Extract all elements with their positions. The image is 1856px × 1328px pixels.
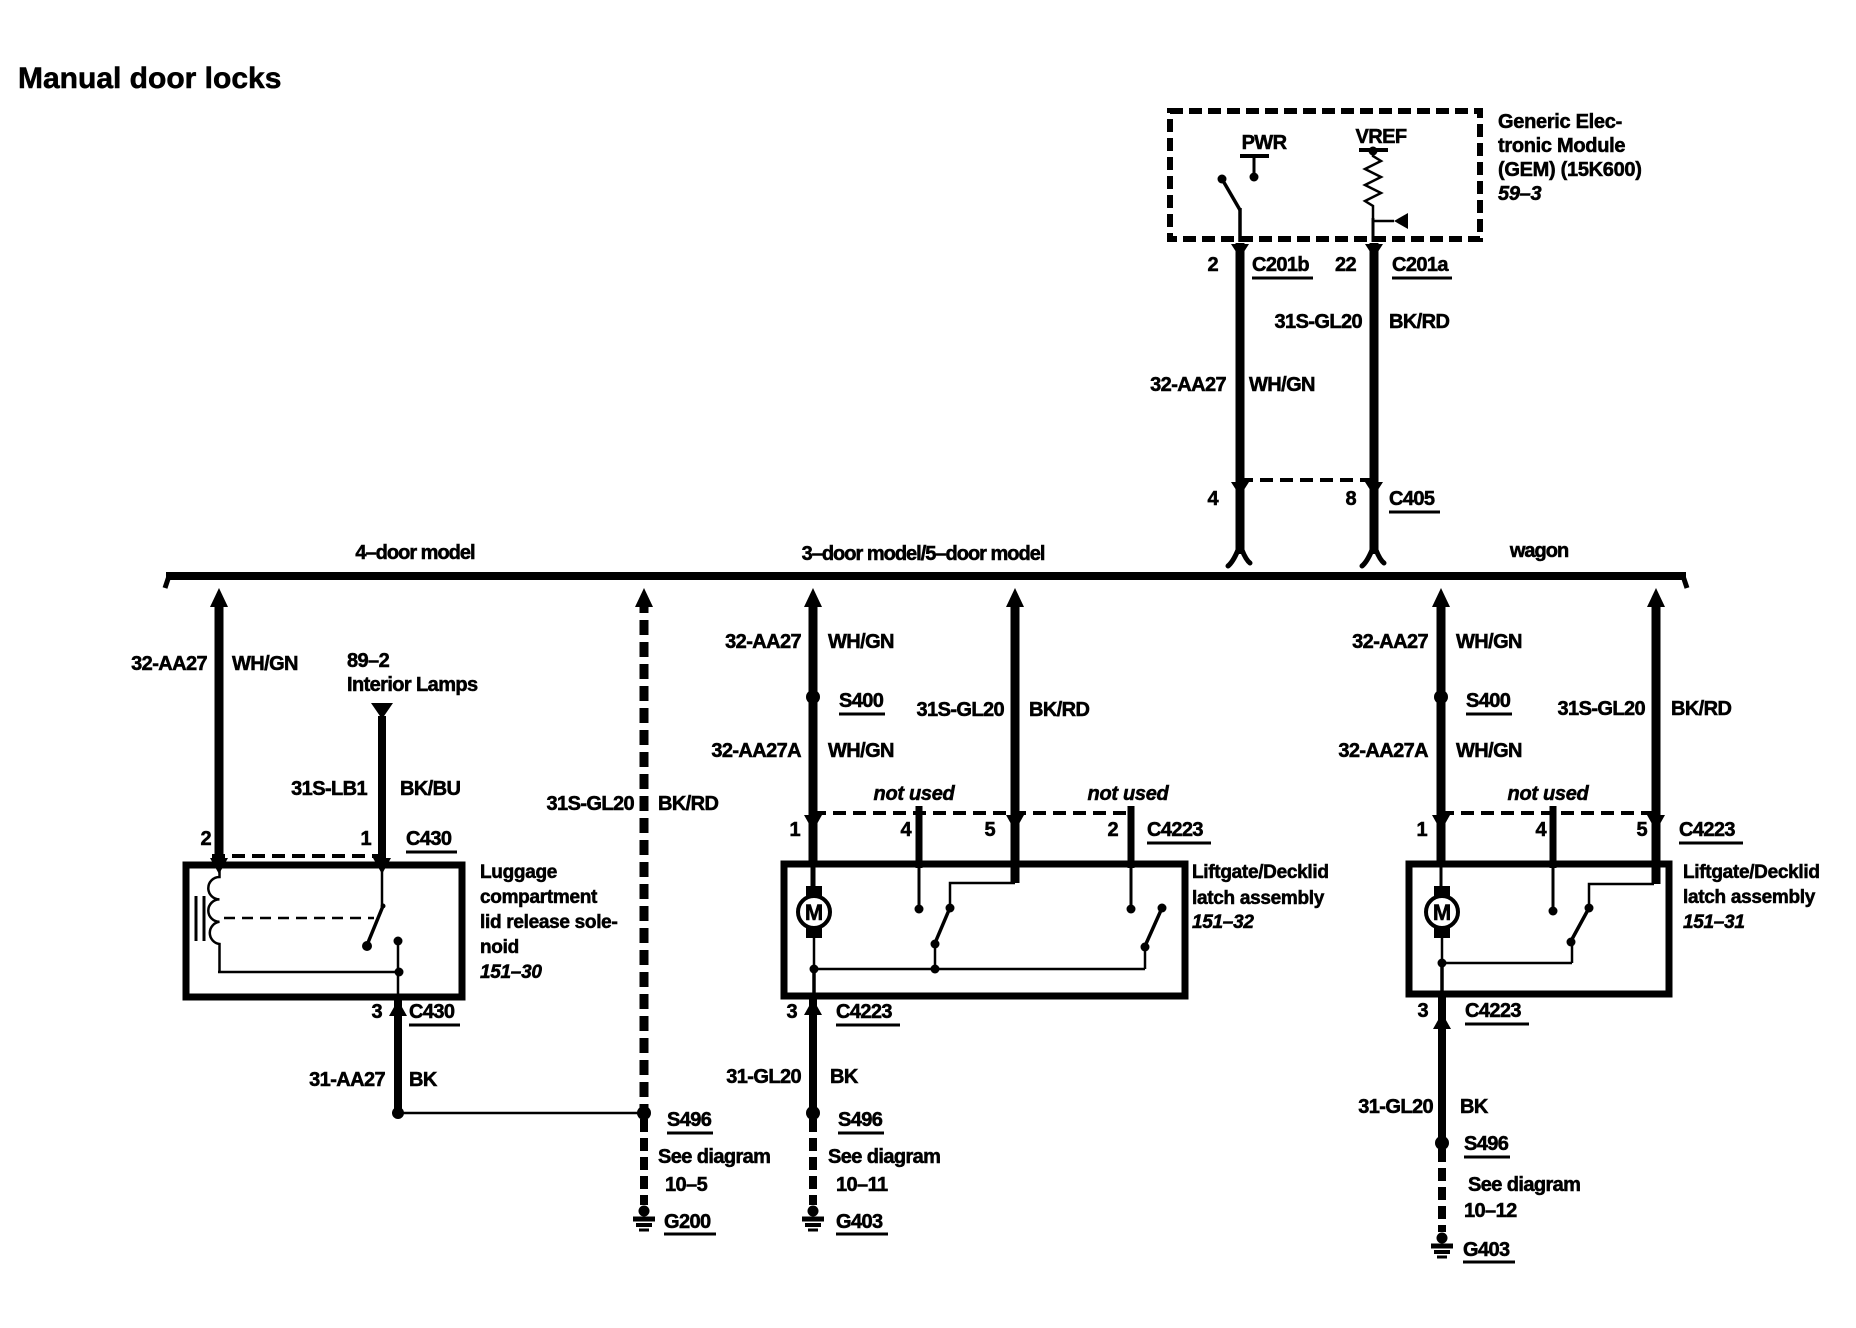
source arrow from interior lamps — [371, 703, 393, 719]
connector C4223 dashed line mid — [813, 811, 1131, 815]
connector arrow pin5 mid — [1006, 815, 1024, 831]
connector arrow pin5 right — [1647, 815, 1665, 831]
stub pin 2 mid — [1127, 806, 1136, 914]
svg-text:C201b: C201b — [1252, 254, 1309, 276]
svg-text:lid release sole-: lid release sole- — [480, 912, 617, 933]
wire C405 pin4 to bus — [1236, 480, 1245, 554]
connector C4223 dashed line right — [1441, 811, 1656, 815]
net 31S-GL20 BK/RD label — [1275, 311, 1450, 333]
wire junction to pin 3 — [397, 972, 400, 997]
svg-text:4: 4 — [1207, 488, 1219, 510]
svg-text:31-GL20: 31-GL20 — [726, 1066, 801, 1088]
svg-text:31S-GL20: 31S-GL20 — [547, 793, 635, 815]
svg-text:WH/GN: WH/GN — [828, 740, 894, 762]
splice S400 label mid — [839, 690, 885, 714]
jog wire pin5 to switch1 mid — [950, 883, 1015, 905]
arrow up at bus middle2 — [1006, 588, 1024, 607]
connector arrow C201b — [1231, 244, 1249, 258]
wire bottom horizontal mid — [814, 968, 1145, 971]
bus wire horizontal — [166, 572, 1686, 580]
svg-text:C4223: C4223 — [836, 1001, 892, 1023]
net 32-AA27 WH/GN label right — [1352, 631, 1522, 653]
net 32-AA27A WH/GN label right — [1338, 740, 1522, 762]
svg-text:8: 8 — [1345, 488, 1356, 510]
wire motor to junction mid — [813, 938, 816, 969]
wire splice horizontal to S496 — [398, 1112, 644, 1115]
svg-text:S496: S496 — [1464, 1133, 1509, 1155]
svg-text:31S-GL20: 31S-GL20 — [1275, 311, 1363, 333]
svg-text:Interior Lamps: Interior Lamps — [347, 674, 478, 696]
switch 1 mid — [931, 904, 955, 970]
wire pin2 GEM to C405 — [1236, 243, 1245, 480]
svg-text:noid: noid — [480, 937, 519, 958]
svg-text:WH/GN: WH/GN — [1249, 374, 1315, 396]
connector C4223 label right — [1679, 819, 1743, 843]
GEM module label — [1498, 111, 1642, 205]
net 31-GL20 BK label mid — [726, 1066, 859, 1088]
junction dot left bottom — [392, 1107, 404, 1119]
wire coil bottom to junction — [218, 971, 399, 974]
ground G403 symbol mid — [802, 1206, 824, 1231]
svg-text:Liftgate/Decklid: Liftgate/Decklid — [1683, 862, 1820, 883]
connector C405 dashed line — [1240, 478, 1374, 482]
splice S496 right — [1435, 1136, 1449, 1150]
svg-text:S496: S496 — [838, 1109, 883, 1131]
resistor (VREF pull-up) — [1365, 152, 1381, 221]
svg-text:not used: not used — [1508, 783, 1590, 805]
svg-text:10–12: 10–12 — [1464, 1200, 1517, 1222]
latch assembly label mid — [1192, 862, 1329, 933]
net 31S-GL20 BK/RD label left — [547, 793, 719, 815]
net 31-AA27 BK label — [309, 1069, 438, 1091]
svg-text:wagon: wagon — [1509, 540, 1568, 562]
svg-text:59–3: 59–3 — [1498, 183, 1541, 205]
solenoid coil L1 — [208, 868, 219, 972]
svg-text:tronic Module: tronic Module — [1498, 135, 1625, 157]
junction dot switch1 mid — [931, 965, 940, 974]
svg-text:BK: BK — [409, 1069, 438, 1091]
svg-text:latch assembly: latch assembly — [1192, 888, 1325, 909]
svg-text:Liftgate/Decklid: Liftgate/Decklid — [1192, 862, 1329, 883]
svg-text:M: M — [1433, 900, 1451, 925]
ground G403 label mid — [836, 1211, 888, 1234]
svg-text:C405: C405 — [1389, 488, 1435, 510]
stub pin 4 right — [1549, 806, 1558, 916]
svg-text:See diagram: See diagram — [828, 1146, 940, 1168]
svg-text:PWR: PWR — [1242, 132, 1288, 154]
wire foot right — [1362, 550, 1384, 566]
splice S496 left — [637, 1106, 651, 1120]
svg-text:151–30: 151–30 — [480, 962, 542, 983]
svg-text:1: 1 — [789, 819, 800, 841]
wire pin3 right down to splice — [1438, 994, 1446, 1143]
ground G200 label — [664, 1211, 716, 1234]
fixed contact and junction — [394, 937, 404, 977]
ground G403 label right — [1463, 1239, 1515, 1262]
connector arrow C4223 pin3 mid — [804, 999, 822, 1015]
svg-text:3: 3 — [1417, 1000, 1428, 1022]
arrow up at bus 31S-GL20 — [635, 588, 653, 607]
switch 2 mid — [1141, 904, 1167, 970]
svg-text:C430: C430 — [409, 1001, 455, 1023]
svg-text:compartment: compartment — [480, 887, 598, 908]
wire 32-AA27 left drop — [215, 598, 224, 865]
svg-text:G403: G403 — [836, 1211, 883, 1233]
svg-text:Generic Elec-: Generic Elec- — [1498, 111, 1622, 133]
connector arrow C405 pin4 — [1231, 482, 1249, 496]
switch right — [1567, 904, 1594, 964]
wire 31S-GL20 dashed drop — [640, 598, 649, 1110]
svg-text:1: 1 — [1416, 819, 1427, 841]
svg-text:(GEM) (15K600): (GEM) (15K600) — [1498, 159, 1642, 181]
splice S400 label right — [1466, 690, 1512, 714]
label 89-2 Interior Lamps — [347, 650, 478, 696]
wire motor junction to box bottom mid — [812, 969, 816, 998]
net 31S-GL20 BK/RD label mid — [917, 699, 1090, 721]
svg-text:C4223: C4223 — [1147, 819, 1203, 841]
latch assembly box mid — [784, 864, 1185, 996]
connector arrow pin1 right — [1432, 815, 1450, 831]
splice S496 label right — [1464, 1133, 1510, 1157]
connector arrow pin1 mid — [804, 815, 822, 831]
net 32-AA27 WH/GN label left — [131, 653, 298, 675]
arrow up at bus right1 — [1432, 588, 1450, 607]
svg-text:WH/GN: WH/GN — [828, 631, 894, 653]
svg-text:WH/GN: WH/GN — [232, 653, 298, 675]
svg-text:10–11: 10–11 — [836, 1174, 888, 1196]
input wedge arrow — [1373, 213, 1408, 242]
connector C4223 label mid — [1147, 819, 1211, 843]
switch inside solenoid box — [362, 868, 386, 951]
svg-text:C201a: C201a — [1392, 254, 1449, 276]
solenoid label — [480, 862, 617, 983]
svg-text:See diagram: See diagram — [658, 1146, 770, 1168]
splice S496 label left — [667, 1109, 713, 1133]
svg-text:Manual door locks: Manual door locks — [18, 62, 281, 95]
arrow up at bus left — [210, 588, 228, 607]
note see diagram 10-5 — [658, 1146, 770, 1196]
connector C430 label top — [406, 828, 457, 852]
net 32-AA27 WH/GN label — [1150, 374, 1315, 396]
svg-text:10–5: 10–5 — [665, 1174, 708, 1196]
svg-text:C4223: C4223 — [1679, 819, 1735, 841]
net 32-AA27A WH/GN label mid — [711, 740, 894, 762]
svg-text:BK/RD: BK/RD — [1389, 311, 1449, 333]
wire 31S-LB1 — [378, 716, 386, 865]
wire pin1 into motor mid — [811, 864, 816, 890]
svg-text:not used: not used — [1088, 783, 1170, 805]
wire motor junction to box bottom right — [1440, 963, 1444, 996]
wire 32-AA27 right drop — [1437, 598, 1446, 864]
svg-text:32-AA27: 32-AA27 — [1352, 631, 1428, 653]
svg-text:M: M — [805, 900, 823, 925]
solenoid box outline — [186, 865, 462, 997]
splice S496 label mid — [838, 1109, 884, 1133]
svg-text:31S-GL20: 31S-GL20 — [1558, 698, 1646, 720]
junction dot motor right — [1438, 959, 1447, 968]
svg-text:3: 3 — [786, 1001, 797, 1023]
note see diagram 10-12 — [1464, 1174, 1580, 1222]
svg-text:32-AA27A: 32-AA27A — [711, 740, 801, 762]
connector C430 dashed line — [212, 854, 386, 858]
wire 32-AA27 middle drop — [809, 598, 818, 864]
latch assembly label right — [1683, 862, 1820, 933]
wire foot left — [1228, 550, 1250, 566]
connector C201b label — [1252, 254, 1313, 278]
svg-text:32-AA27: 32-AA27 — [725, 631, 801, 653]
svg-text:31S-LB1: 31S-LB1 — [291, 778, 367, 800]
svg-text:See diagram: See diagram — [1468, 1174, 1580, 1196]
net 31S-LB1 BK/BU label — [291, 778, 460, 800]
svg-text:32-AA27A: 32-AA27A — [1338, 740, 1428, 762]
svg-text:BK/RD: BK/RD — [658, 793, 718, 815]
arrow up at bus right2 — [1647, 588, 1665, 607]
motor M1 mid — [798, 886, 830, 938]
wire pin3 mid down to splice — [809, 996, 817, 1113]
svg-text:31-AA27: 31-AA27 — [309, 1069, 385, 1091]
svg-text:2: 2 — [200, 828, 211, 850]
svg-text:latch assembly: latch assembly — [1683, 887, 1816, 908]
mechanical link dashed — [224, 917, 374, 920]
connector arrow C430 pin2 — [210, 858, 228, 874]
splice S400 right — [1434, 690, 1448, 704]
wire dashed to ground G403 right — [1438, 1149, 1446, 1232]
svg-text:31S-GL20: 31S-GL20 — [917, 699, 1005, 721]
svg-text:WH/GN: WH/GN — [1456, 740, 1522, 762]
svg-text:not used: not used — [874, 783, 956, 805]
wire bottom horizontal right — [1442, 962, 1572, 965]
motor M2 right — [1426, 886, 1458, 938]
svg-text:BK/BU: BK/BU — [400, 778, 460, 800]
svg-text:VREF: VREF — [1356, 126, 1407, 148]
note see diagram 10-11 — [828, 1146, 940, 1196]
svg-text:151–31: 151–31 — [1683, 912, 1745, 933]
svg-text:S400: S400 — [1466, 690, 1511, 712]
svg-text:WH/GN: WH/GN — [1456, 631, 1522, 653]
latch assembly box right — [1409, 864, 1669, 994]
svg-text:BK: BK — [1460, 1096, 1489, 1118]
wire 31S-GL20 middle drop — [1011, 598, 1020, 883]
svg-text:3–door model/5–door model: 3–door model/5–door model — [802, 543, 1045, 565]
connector C405 label — [1389, 488, 1440, 512]
svg-text:G403: G403 — [1463, 1239, 1510, 1261]
net 31-GL20 BK label right — [1358, 1096, 1489, 1118]
ground G403 symbol right — [1431, 1233, 1453, 1258]
connector C4223 label bottom mid — [836, 1001, 900, 1025]
bus left hook — [165, 576, 169, 588]
svg-text:BK/RD: BK/RD — [1029, 699, 1089, 721]
wire 31S-GL20 right drop — [1652, 598, 1661, 884]
net 32-AA27 WH/GN label mid — [725, 631, 894, 653]
connector C430 label bottom — [409, 1001, 460, 1025]
svg-text:22: 22 — [1335, 254, 1357, 276]
GEM module dashed box U1 — [1170, 111, 1480, 239]
wire motor to junction right — [1441, 938, 1444, 963]
bus right hook — [1683, 576, 1687, 588]
svg-text:2: 2 — [1207, 254, 1218, 276]
connector C4223 label bottom right — [1465, 1000, 1529, 1024]
svg-text:31-GL20: 31-GL20 — [1358, 1096, 1433, 1118]
svg-text:4: 4 — [900, 819, 912, 841]
svg-text:5: 5 — [1636, 819, 1647, 841]
svg-text:G200: G200 — [664, 1211, 711, 1233]
svg-text:5: 5 — [984, 819, 995, 841]
connector arrow C405 pin8 — [1365, 482, 1383, 496]
svg-text:2: 2 — [1107, 819, 1118, 841]
svg-text:32-AA27: 32-AA27 — [1150, 374, 1226, 396]
svg-text:4: 4 — [1535, 819, 1547, 841]
connector arrow C4223 pin3 right — [1433, 1013, 1451, 1029]
PWR supply symbol — [1240, 156, 1269, 182]
svg-text:S496: S496 — [667, 1109, 712, 1131]
ground G200 symbol — [633, 1206, 655, 1231]
connector arrow C430 pin1 — [373, 858, 391, 874]
svg-text:BK: BK — [830, 1066, 859, 1088]
jog wire pin5 to switch right — [1589, 884, 1654, 906]
svg-text:4–door model: 4–door model — [355, 542, 475, 564]
net 31S-GL20 BK/RD label right — [1558, 698, 1732, 720]
svg-text:1: 1 — [360, 828, 371, 850]
wire pin1 into motor right — [1440, 864, 1443, 890]
svg-text:S400: S400 — [839, 690, 884, 712]
VREF supply bar — [1359, 147, 1388, 156]
connector arrow C201a — [1365, 244, 1383, 258]
wire dashed to ground G200 — [640, 1119, 648, 1205]
connector arrow C430 pin3 up — [389, 1000, 407, 1016]
connector C201a label — [1392, 254, 1452, 278]
solenoid core bars — [196, 896, 204, 941]
wire dashed to ground G403 mid — [809, 1119, 817, 1205]
svg-text:C4223: C4223 — [1465, 1000, 1521, 1022]
stub pin 4 mid — [915, 806, 924, 914]
svg-text:32-AA27: 32-AA27 — [131, 653, 207, 675]
wire pin22 GEM to C405 — [1370, 243, 1379, 480]
wire pin 3 down to splice — [394, 997, 402, 1113]
junction dot motor mid — [810, 965, 819, 974]
arrow up at bus middle1 — [804, 588, 822, 607]
svg-text:Luggage: Luggage — [480, 862, 557, 883]
wire C405 pin8 to bus — [1370, 480, 1379, 554]
switch S inside GEM — [1218, 175, 1241, 243]
splice S400 mid — [806, 690, 820, 704]
svg-text:3: 3 — [371, 1001, 382, 1023]
svg-text:C430: C430 — [406, 828, 452, 850]
svg-text:89–2: 89–2 — [347, 650, 390, 672]
svg-text:BK/RD: BK/RD — [1671, 698, 1731, 720]
svg-text:151–32: 151–32 — [1192, 912, 1254, 933]
splice S496 mid — [806, 1106, 820, 1120]
